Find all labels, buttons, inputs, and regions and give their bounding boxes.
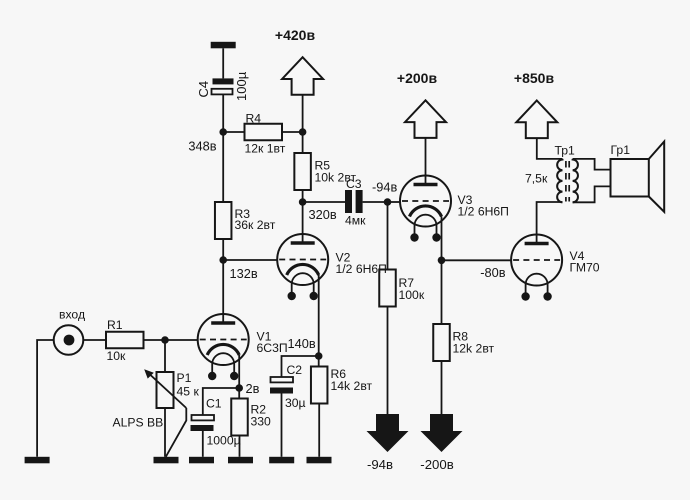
- wire node B to R5: [302, 132, 304, 153]
- ground (C1): [189, 457, 214, 464]
- capacitor C1 bottom plate (filled): [191, 425, 214, 431]
- tube V2 1/2 6Н6П envelope: [277, 234, 328, 285]
- tube V1 6С3П grid (dashed): [200, 339, 247, 341]
- svg-text:Тр1: Тр1: [555, 144, 576, 158]
- wire +420в arrow to node B: [302, 95, 304, 132]
- svg-text:Гр1: Гр1: [611, 143, 631, 157]
- svg-text:100µ: 100µ: [234, 71, 249, 101]
- svg-text:14k 2вт: 14k 2вт: [331, 379, 373, 393]
- tube V4 ГМ70 grid (dashed): [513, 259, 560, 261]
- ground (R2): [228, 457, 253, 464]
- speaker Гр1 body: [611, 159, 649, 197]
- svg-text:1/2 6Н6П: 1/2 6Н6П: [458, 205, 509, 219]
- svg-text:+200в: +200в: [397, 70, 438, 86]
- svg-text:30µ: 30µ: [285, 396, 306, 410]
- resistor R7: [379, 270, 396, 307]
- speaker Гр1 cone: [649, 142, 664, 212]
- capacitor C3 left plate: [345, 190, 352, 213]
- svg-text:100к: 100к: [399, 288, 425, 302]
- ground (R6): [307, 457, 332, 464]
- ground (top, C4): [211, 42, 236, 49]
- wire ground to C4 top plate: [222, 48, 224, 78]
- wire node E to V1 anode: [222, 260, 224, 323]
- tube V3 1/2 6Н6П envelope: [400, 176, 451, 227]
- svg-text:4мк: 4мк: [345, 214, 366, 228]
- svg-text:ГМ70: ГМ70: [570, 261, 600, 275]
- wire node A to R3: [222, 132, 224, 202]
- tube V3 1/2 6Н6П heater filament: [415, 215, 437, 238]
- tube V1 6С3П envelope: [198, 314, 249, 365]
- tube V3 1/2 6Н6П grid (dashed): [402, 200, 449, 202]
- wire +850в arrow to transformer: [537, 138, 563, 159]
- transformer Тр1 secondary winding: [573, 159, 578, 202]
- svg-text:132в: 132в: [230, 266, 258, 281]
- svg-text:R1: R1: [107, 318, 123, 332]
- svg-text:12к 1вт: 12к 1вт: [245, 142, 286, 156]
- node H (V2 cathode/R6/C2): [315, 352, 323, 360]
- node C (R5/C3/V2 anode): [299, 198, 307, 206]
- svg-text:-200в: -200в: [420, 457, 453, 472]
- wire node A to R4: [223, 131, 244, 133]
- resistor R5: [294, 153, 311, 190]
- wire R7 to -94в: [387, 307, 389, 415]
- ground (P1): [154, 457, 179, 464]
- wire node D to V3 grid: [388, 201, 401, 203]
- capacitor C3 right plate: [356, 190, 363, 213]
- wire R2 to ground: [239, 436, 241, 457]
- wire V3 cathode to node I: [441, 217, 443, 261]
- wire jack to R1: [83, 339, 106, 341]
- svg-text:C2: C2: [287, 363, 303, 377]
- tube V1 6С3П cathode arc: [207, 344, 239, 355]
- wire C2 to ground: [281, 394, 283, 457]
- wire P1 to ground: [164, 408, 166, 457]
- tube V4 ГМ70 heater filament: [526, 274, 548, 297]
- resistor R2: [231, 399, 248, 436]
- svg-text:7,5к: 7,5к: [525, 172, 548, 186]
- capacitor C4 top plate (filled): [213, 78, 234, 84]
- wire V4 anode to transformer: [537, 202, 563, 244]
- node E (R3/V1 anode/V2 grid): [219, 256, 227, 264]
- wire node I to R8: [441, 260, 443, 324]
- svg-text:P1: P1: [177, 371, 192, 385]
- transformer Тр1 core (dashed): [565, 161, 567, 202]
- transformer Тр1 primary winding: [557, 159, 562, 202]
- wire node D to R7: [387, 202, 389, 270]
- capacitor C4 bottom plate: [212, 89, 233, 95]
- svg-text:12k 2вт: 12k 2вт: [453, 342, 495, 356]
- supply arrow -94в: [367, 414, 409, 452]
- supply arrow +420в: [282, 57, 323, 95]
- wire C1 to ground: [202, 431, 204, 457]
- svg-text:140в: 140в: [288, 336, 316, 351]
- svg-text:2в: 2в: [246, 381, 260, 396]
- input connector (RCA jack): [54, 325, 84, 355]
- resistor R4: [245, 124, 283, 141]
- svg-text:вход: вход: [59, 308, 85, 322]
- capacitor C2 top plate: [271, 377, 294, 382]
- node F (R1/P1/V1 grid): [161, 336, 169, 344]
- wire R6 to ground: [318, 404, 320, 457]
- svg-text:320в: 320в: [309, 207, 337, 222]
- wire V1 cathode to node G: [238, 355, 240, 388]
- wire C3 to node D: [363, 201, 388, 203]
- node A (C4/R4/R3 junction): [219, 128, 227, 136]
- capacitor C2 bottom plate (filled): [270, 388, 293, 394]
- wire node C to C3: [303, 201, 345, 203]
- svg-text:-94в: -94в: [367, 457, 393, 472]
- wire node H to R6: [318, 356, 320, 367]
- tube V4 ГМ70 envelope: [511, 235, 562, 286]
- wire secondary bottom to speaker: [573, 186, 611, 202]
- tube V2 1/2 6Н6П heater filament: [292, 273, 314, 296]
- svg-text:10к: 10к: [107, 349, 127, 363]
- svg-text:+420в: +420в: [275, 27, 316, 43]
- tube V1 6С3П heater pin dots: [208, 372, 216, 380]
- tube V4 ГМ70 heater pin dots: [521, 292, 529, 300]
- resistor R1: [106, 332, 144, 349]
- wire V2 cathode to node H: [318, 275, 320, 356]
- supply arrow -200в: [421, 414, 463, 452]
- ground (input): [25, 457, 50, 464]
- wire jack shield to ground: [37, 340, 54, 457]
- P1 wiper return to bottom terminal: [166, 408, 187, 457]
- tube V2 1/2 6Н6П cathode arc: [287, 264, 319, 275]
- wire R8 to -200в: [441, 361, 443, 414]
- svg-text:+850в: +850в: [514, 70, 555, 86]
- svg-text:-94в: -94в: [372, 180, 397, 195]
- ground (C2): [269, 457, 294, 464]
- wire R1 to V1 grid: [144, 339, 199, 341]
- wire +200в arrow to V3 anode: [425, 138, 427, 185]
- node I (V3 cathode/R8/V4 grid): [438, 257, 446, 265]
- node B (R4/+420/R5 junction): [299, 128, 307, 136]
- resistor R8: [433, 324, 450, 361]
- tube V2 1/2 6Н6П grid (dashed): [279, 259, 326, 261]
- tube V2 1/2 6Н6П heater pin dots: [288, 292, 296, 300]
- svg-text:R4: R4: [246, 112, 262, 126]
- tube V3 1/2 6Н6П cathode arc: [410, 206, 442, 217]
- node D (C3/V3 grid/R7): [384, 198, 392, 206]
- svg-text:-80в: -80в: [480, 265, 505, 280]
- node G (V1 cathode/R2/C1): [235, 384, 243, 392]
- wire R3 to node E: [222, 239, 224, 260]
- svg-text:348в: 348в: [188, 139, 216, 154]
- svg-text:36к 2вт: 36к 2вт: [235, 218, 276, 232]
- wire node G to R2: [238, 388, 240, 399]
- tube V3 1/2 6Н6П anode plate: [414, 183, 438, 186]
- wire R5 to node C: [302, 190, 304, 202]
- wire node G to C1: [203, 388, 239, 415]
- potentiometer P1 body: [157, 372, 174, 408]
- supply arrow +200в: [405, 100, 446, 138]
- potentiometer P1 wiper arrow: [148, 373, 186, 408]
- svg-text:C4: C4: [196, 81, 211, 98]
- wire node H to C2: [282, 356, 319, 377]
- tube V1 6С3П anode plate: [211, 321, 235, 324]
- wire node F to P1: [164, 340, 166, 372]
- wire node E to V2 grid: [223, 259, 278, 261]
- tube V2 1/2 6Н6П anode plate: [291, 241, 315, 244]
- svg-text:45 к: 45 к: [177, 385, 200, 399]
- svg-text:ALPS BB: ALPS BB: [113, 416, 164, 430]
- wire node C to V2 anode: [302, 202, 304, 243]
- svg-text:6С3П: 6С3П: [257, 341, 288, 355]
- wire node I to V4 grid: [442, 259, 512, 261]
- capacitor C1 top plate: [192, 415, 215, 420]
- wire R4 to node B: [282, 131, 303, 133]
- tube V1 6С3П heater filament: [212, 353, 234, 376]
- tube V3 1/2 6Н6П heater pin dots: [410, 233, 418, 241]
- wire secondary top to speaker: [573, 159, 611, 170]
- tube V4 ГМ70 anode plate: [525, 242, 549, 245]
- svg-text:C3: C3: [346, 177, 362, 191]
- wire C4 to node A: [222, 94, 224, 132]
- resistor R3: [215, 202, 232, 239]
- svg-text:330: 330: [251, 415, 272, 429]
- svg-text:C1: C1: [206, 397, 222, 411]
- resistor R6: [311, 367, 328, 404]
- supply arrow +850в: [516, 101, 557, 139]
